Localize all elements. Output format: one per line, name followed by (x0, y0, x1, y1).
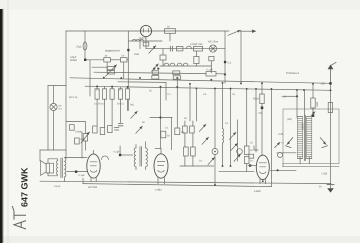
wire top bus (66, 30, 229, 32)
svg-text:1500: 1500 (316, 101, 319, 107)
node Q (296, 95, 298, 97)
wire vertical x225 (224, 31, 226, 83)
tiny value labels (54, 25, 328, 193)
scan left black edge (0, 9, 3, 243)
transformer TR1 primary (65, 158, 66, 177)
wire stub x166 (165, 82, 167, 100)
svg-text:0,5MΩ: 0,5MΩ (75, 131, 82, 134)
transformer T2 secondary winding (307, 117, 312, 159)
resistor R14 (175, 128, 180, 135)
capacitor C2 (143, 42, 149, 46)
pilot lamp LA2 (209, 45, 216, 52)
junction (214, 184, 216, 186)
wire stub R1 down (106, 62, 108, 72)
mains aerial arrow up (331, 62, 337, 83)
wire (162, 49, 164, 66)
resistor R11 (152, 76, 159, 79)
wire bottom bus 2 (83, 184, 271, 187)
V1 grid (90, 162, 97, 166)
wire vertical x262 grid (261, 83, 263, 94)
junction (176, 77, 178, 79)
svg-text:abgeschirmt: abgeschirmt (105, 49, 120, 52)
wire (119, 146, 121, 154)
capacitor C8 box (75, 138, 80, 144)
node J (159, 116, 161, 118)
dial lamp LA1 (50, 103, 57, 110)
V3 grid (259, 163, 266, 167)
svg-text:+2Ω5: +2Ω5 (321, 173, 328, 176)
wire y67 (92, 66, 107, 68)
page crease line (7, 0, 9, 243)
cap circle (278, 153, 283, 158)
svg-text:0,1: 0,1 (228, 62, 232, 65)
V1 cathode (91, 171, 97, 173)
svg-text:-20: -20 (318, 185, 322, 188)
jack circle J2 (237, 149, 243, 155)
junction (195, 87, 197, 89)
switch S6 (199, 124, 206, 131)
wire corner up (82, 179, 84, 184)
resistor row R17 (110, 89, 114, 99)
svg-text:0,1µF: 0,1µF (54, 185, 61, 188)
capacitor C7 box (70, 125, 75, 131)
wire (110, 59, 120, 61)
node O (261, 107, 264, 110)
node R (312, 115, 314, 117)
wire (169, 33, 171, 41)
svg-text:50WΩ: 50WΩ (70, 59, 77, 62)
resistor R8 (209, 56, 214, 60)
junction (189, 83, 191, 85)
antenna arrow (251, 30, 256, 32)
V2 stubs (158, 148, 164, 183)
junction (303, 89, 305, 91)
wire (210, 61, 212, 73)
svg-text:50000: 50000 (302, 123, 305, 130)
wire bus B (70, 78, 331, 84)
switch S11 (234, 154, 241, 161)
wire stub R2 down (123, 62, 125, 79)
svg-text:+0,5: +0,5 (281, 95, 287, 98)
node B (shielded point) (127, 49, 129, 51)
switch S10 (208, 157, 215, 164)
switch S2 (149, 46, 156, 54)
resistor R13 (161, 131, 166, 138)
wires above resistor row (97, 86, 127, 88)
junction (222, 82, 224, 84)
switch S5 (136, 126, 143, 133)
switch S3 (152, 64, 159, 71)
resistor R1 (104, 58, 111, 62)
coupling coil L1 (129, 39, 162, 41)
resistor R26 (260, 94, 264, 104)
svg-text:+75: +75 (258, 112, 263, 115)
vertical x171.5 (171, 118, 173, 150)
resistor R6 (160, 55, 166, 60)
frame bottom second line (283, 166, 339, 168)
wire y117.5 (150, 116, 172, 118)
V1 stubs (91, 150, 96, 181)
tube V2 envelope (154, 154, 168, 178)
wire (277, 152, 296, 154)
node C (224, 61, 226, 63)
junction (312, 83, 314, 85)
wire vertical x237.5 (237, 120, 239, 161)
resistor row R15 (95, 89, 99, 99)
svg-text:o 4B1: o 4B1 (155, 188, 162, 191)
wire bus C short (118, 81, 166, 84)
resistor row R16 (102, 89, 106, 99)
svg-text:50 0,1: 50 0,1 (117, 103, 124, 106)
junction (176, 86, 178, 88)
wire (39, 150, 41, 161)
svg-text:0,05µF+5m: 0,05µF+5m (190, 43, 203, 46)
resistor R23 (244, 146, 249, 155)
wire HT vertical (330, 85, 332, 189)
speaker LS cone (41, 161, 47, 176)
tuning gang C9c (184, 147, 189, 156)
svg-text:125: 125 (321, 83, 326, 86)
U1 pin 1 (143, 29, 145, 33)
vertical x177.3 (176, 78, 178, 128)
node D (153, 68, 155, 70)
wire below U1 (145, 37, 147, 49)
wire (271, 169, 297, 171)
wire (121, 154, 132, 156)
tube V3 envelope (256, 155, 269, 179)
wire (246, 89, 248, 172)
V3 cathode (260, 172, 266, 174)
wire (222, 83, 224, 166)
junction (222, 165, 224, 167)
wire + diode D4 (311, 108, 315, 116)
wire (297, 90, 309, 164)
capacitor C4 block (206, 72, 216, 76)
transformer T2 core (304, 116, 305, 161)
junction (214, 88, 216, 90)
junction (230, 88, 232, 90)
capacitor C5 (115, 128, 119, 130)
wire left vertical (65, 31, 67, 158)
resistor R24 (244, 157, 249, 164)
node N (249, 164, 251, 166)
wire vertical x313 (312, 83, 314, 98)
resistor R9 (152, 71, 158, 75)
tube U1 top-cap circle (140, 25, 151, 36)
svg-text:50kΩ: 50kΩ (253, 98, 259, 101)
wire stub x140 (139, 41, 141, 49)
osc coil L4 (223, 129, 224, 143)
wire (261, 104, 263, 156)
node F (224, 73, 226, 75)
resistor R29 (107, 66, 114, 69)
jack circle J1 (212, 149, 218, 155)
resistor R5 (193, 46, 202, 51)
junction (296, 89, 298, 91)
wire gang links (185, 121, 193, 166)
wire (254, 146, 258, 150)
svg-text:1R: 1R (181, 131, 184, 134)
V2 cathode (158, 170, 164, 172)
wire (81, 132, 83, 158)
resistor R2 (120, 58, 127, 62)
wire vertical x230.5 (230, 89, 232, 166)
wire (84, 122, 86, 150)
rectifier diode D2 (320, 138, 327, 148)
wire speaker to transformer (48, 159, 58, 176)
switch S4 (131, 111, 138, 118)
wire y150 (40, 149, 66, 151)
resistor R22 (108, 126, 113, 133)
resistor R28 (328, 103, 332, 113)
diode D3 (275, 142, 280, 147)
node E (157, 68, 159, 70)
wire (127, 99, 129, 110)
wire (53, 86, 55, 104)
wire (64, 177, 66, 181)
potentiometer P1 (83, 134, 87, 141)
power transformer frame (283, 109, 339, 164)
junction (210, 79, 212, 81)
wire grid line y60 (86, 59, 104, 61)
transformer TR1 core (61, 158, 62, 178)
switch S8 (229, 132, 236, 139)
switch S9 (231, 143, 238, 150)
switch S7 (202, 137, 209, 144)
junction (160, 86, 162, 88)
resistor row R18 (118, 89, 122, 99)
wire (53, 111, 55, 150)
resistor R27 (311, 98, 315, 108)
wire vertical x256 (255, 89, 257, 152)
resistor row R19 (125, 89, 129, 99)
IF transformer T1 core (140, 147, 142, 166)
wire vertical x128 (127, 31, 129, 89)
svg-text:(AZ): (AZ) (287, 118, 292, 121)
junction (103, 77, 105, 79)
svg-text:(50 1,6): (50 1,6) (69, 96, 77, 99)
svg-text:0,1µF: 0,1µF (114, 150, 121, 153)
resistor R30 (107, 71, 114, 74)
wire (155, 147, 161, 149)
wire vertical x241 (240, 31, 242, 83)
wire y171.7 (219, 171, 254, 173)
resistor R20 (93, 126, 98, 133)
U1 pin 2 (148, 29, 150, 33)
svg-text:70Ω: 70Ω (130, 103, 135, 106)
wire anode lead (65, 157, 87, 159)
rectifier diode D1 (286, 138, 293, 148)
lamp branch top (48, 85, 66, 87)
V1 grid-cap arc (101, 156, 108, 160)
wire y96 (283, 95, 297, 97)
svg-text:1MΩ: 1MΩ (134, 53, 139, 56)
vertical x160.5 (160, 87, 162, 149)
junction (262, 180, 264, 182)
wire (195, 51, 197, 66)
wire cathode lead (67, 171, 87, 173)
node H (329, 82, 331, 84)
junction (120, 77, 122, 79)
speaker LS driver (46, 163, 53, 173)
resistor R7 (194, 56, 199, 63)
node G (cap) (75, 171, 77, 173)
svg-text:0,1 50 0,1: 0,1 50 0,1 (94, 103, 105, 106)
svg-text:Trimmer+2: Trimmer+2 (286, 72, 299, 75)
wire detector row y48.7 (146, 48, 225, 50)
V2 grid (158, 162, 165, 166)
oscillator coil L3 (164, 63, 188, 65)
resistor R3 on top bus (165, 29, 176, 34)
transformer TR1 secondary (56, 161, 57, 175)
junction (261, 82, 263, 84)
logo AT (12, 206, 26, 229)
IF transformer T1 left winding (134, 148, 136, 167)
wire vertical x90 (89, 60, 91, 96)
tube V1 envelope (87, 154, 100, 178)
resistor R12 (173, 76, 180, 79)
tuning gang C9b (190, 126, 195, 133)
wire (47, 86, 49, 150)
wire (136, 142, 146, 170)
resistor R25 (249, 154, 254, 158)
coil L2 hump (186, 46, 191, 49)
svg-text:(50): (50) (81, 138, 85, 141)
node P (277, 169, 279, 171)
IF transformer T1 right winding (146, 148, 148, 167)
node L (111, 86, 113, 88)
svg-text:6Л7GW: 6Л7GW (88, 186, 98, 189)
node I (119, 154, 121, 156)
wire (248, 165, 257, 167)
node K (96, 85, 98, 87)
wire (214, 155, 216, 185)
junction (139, 77, 141, 79)
junction (255, 88, 257, 90)
svg-text:0,1µF: 0,1µF (207, 69, 214, 72)
junction (240, 82, 242, 84)
junction (330, 89, 332, 91)
junction (246, 88, 248, 90)
resistor R4 (177, 47, 183, 51)
wires below resistor row (97, 99, 127, 127)
wire bus A (94, 72, 206, 73)
svg-text:(0µ): (0µ) (77, 45, 82, 48)
resistor R10 (173, 71, 180, 75)
capacitor C1 (83, 42, 87, 50)
svg-text:+245: +245 (278, 133, 284, 136)
wire branch y121.5 (66, 121, 85, 123)
tuning gang C9a (183, 126, 188, 133)
tuning gang C9d (191, 147, 196, 156)
wire vertical x271 (270, 89, 272, 187)
capacitor C6 (118, 123, 123, 125)
wire (127, 59, 128, 61)
junction (230, 165, 232, 167)
svg-text:647 GWK: 647 GWK (20, 167, 30, 207)
svg-text:AZ1 50m: AZ1 50m (208, 41, 218, 44)
capacitor C3 (170, 46, 172, 51)
wire bus D (85, 86, 331, 90)
wire AVC line y66 (160, 65, 212, 67)
transformer T2 primary winding (298, 117, 303, 159)
wire vertical x85 (84, 31, 86, 60)
model number 647 GWK (20, 167, 30, 207)
svg-text:(A77): (A77) (139, 37, 146, 40)
wire (216, 73, 225, 75)
V3 stubs (260, 179, 266, 184)
pot wiper arrow (106, 65, 117, 76)
wire y below frame (282, 164, 284, 167)
junction (270, 88, 272, 90)
node A (blocking cap) (84, 59, 86, 61)
wire y166 (180, 165, 214, 167)
wire bottom bus 1 (40, 181, 331, 183)
resistor R21 (100, 128, 105, 135)
svg-text:6 B20: 6 B20 (254, 190, 261, 193)
svg-text:0,1µF: 0,1µF (79, 174, 86, 177)
wire antenna lead (241, 30, 252, 32)
wire vertical x190 (189, 84, 191, 121)
earth arrow (327, 184, 334, 186)
wire vertical x196.4 (195, 88, 197, 121)
switch S1 on antenna line (228, 30, 241, 35)
wire vertical x215 (214, 89, 216, 149)
node M (127, 86, 129, 88)
